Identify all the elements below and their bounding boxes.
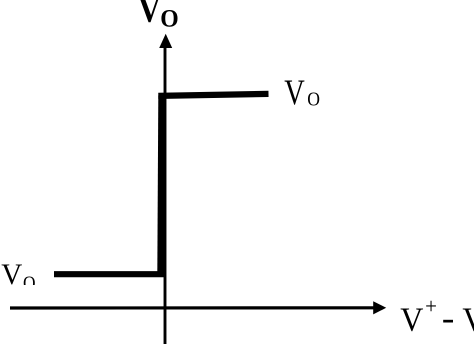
svg-text:V: V [138,0,160,30]
x-axis line [10,306,376,309]
svg-text:O: O [307,88,320,111]
step function: low output segment [54,271,164,277]
svg-text:+: + [425,294,437,319]
y-axis line [164,44,167,344]
svg-text:O: O [160,5,178,33]
svg-text:V: V [1,259,22,291]
y-axis arrowhead [159,34,172,48]
step function: high output segment [158,94,268,96]
svg-text:V: V [462,302,474,339]
x-axis arrowhead [373,301,386,314]
svg-text:O: O [23,272,36,293]
svg-text:V: V [284,73,305,113]
label: Vo at low level (subscript O, bottom faded away) [23,272,36,293]
svg-text:V: V [400,302,424,339]
step function: vertical transition [161,96,162,275]
x-axis label: minus sign [443,320,453,323]
